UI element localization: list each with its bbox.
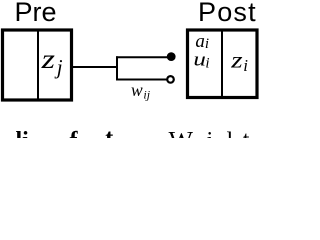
box Post (postsynaptic neuron) — [188, 30, 258, 98]
divider in Pre box — [37, 30, 39, 100]
excitatory synapse terminal (filled circle) — [167, 52, 176, 61]
svg-text:li: li — [16, 128, 30, 138]
wire top branch — [116, 56, 169, 58]
svg-text:t: t — [105, 126, 113, 139]
inhibitory synapse terminal (open circle) — [167, 76, 174, 83]
box Pre (presynaptic neuron) — [3, 30, 72, 100]
svg-text:i: i — [205, 56, 209, 72]
divider in Post box — [221, 30, 223, 98]
svg-text:i: i — [243, 56, 248, 75]
wire bottom branch — [116, 79, 168, 81]
svg-text:j: j — [54, 55, 63, 79]
svg-text:u: u — [193, 49, 206, 70]
svg-text:Post: Post — [198, 0, 257, 27]
svg-text:Pre: Pre — [15, 0, 57, 27]
wire fork vertical — [116, 56, 118, 80]
svg-text:ij: ij — [143, 88, 150, 102]
svg-text:w: w — [131, 80, 143, 100]
svg-text:f: f — [70, 128, 79, 138]
wire from Pre box — [73, 66, 117, 68]
svg-text:i: i — [207, 128, 214, 138]
svg-text:l: l — [227, 128, 234, 138]
svg-text:t: t — [243, 128, 250, 139]
svg-text:z: z — [40, 44, 55, 74]
svg-text:z: z — [230, 47, 243, 72]
svg-text:W: W — [169, 128, 194, 138]
